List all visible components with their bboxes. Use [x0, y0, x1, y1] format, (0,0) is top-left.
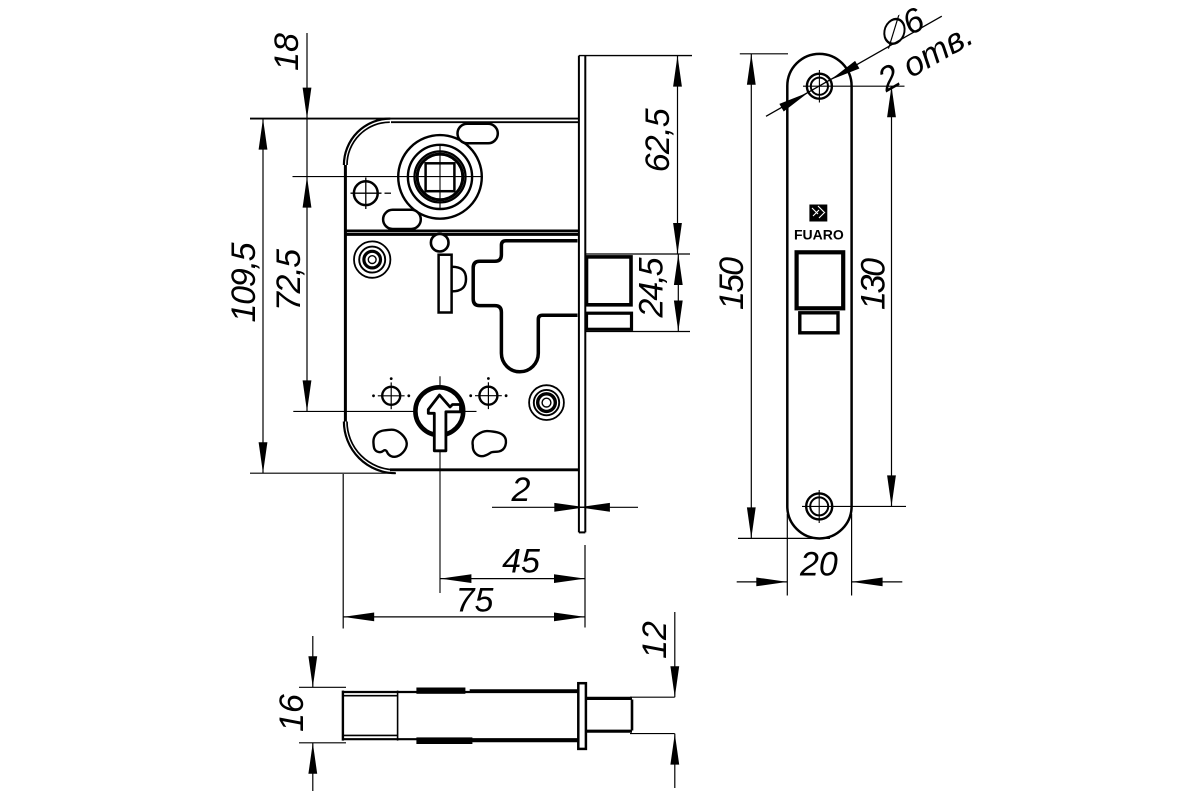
svg-text:20: 20 — [799, 546, 838, 584]
slot top-right stadium — [458, 124, 498, 144]
latch bolt extension bottom — [586, 331, 690, 333]
svg-text:24,5: 24,5 — [633, 257, 671, 318]
dim 45 — [440, 578, 585, 580]
wire body top inner fold line — [391, 121, 579, 123]
wire middle band — [346, 229, 579, 232]
slider bar — [452, 267, 466, 292]
node bottom-left corner arc — [344, 422, 396, 474]
svg-text:75: 75 — [456, 582, 494, 620]
dim 109,5 — [262, 119, 264, 474]
latch bolt head — [587, 257, 632, 305]
latch bolt extension top — [585, 253, 690, 255]
boss bottom — [416, 737, 472, 744]
lower rect — [800, 313, 838, 333]
latch hole — [797, 252, 844, 308]
boss top — [416, 688, 465, 694]
blob right — [473, 431, 506, 456]
screw top — [807, 74, 832, 99]
svg-text:45: 45 — [502, 543, 540, 581]
blob left — [373, 430, 406, 457]
case outline — [342, 691, 344, 741]
svg-text:62,5: 62,5 — [639, 108, 677, 172]
svg-text:150: 150 — [713, 257, 751, 310]
logo fuaro — [809, 205, 827, 222]
ext line right for 45/75 — [584, 545, 586, 628]
svg-text:12: 12 — [636, 621, 674, 659]
hub bottom — [415, 387, 463, 435]
svg-text:2: 2 — [511, 471, 531, 509]
slot mid-left stadium — [383, 210, 421, 229]
rivet bottom-right — [529, 385, 564, 420]
faceplate edge-on — [578, 56, 580, 533]
pin below band — [431, 234, 449, 252]
axis latch vertical + 45 extension — [439, 376, 441, 593]
dim 62,5 — [677, 56, 679, 254]
flange — [578, 683, 586, 749]
dim 18 + 72,5 shared line — [306, 33, 308, 411]
dim 150 — [740, 53, 788, 55]
bolt side — [630, 696, 675, 698]
follower arrow — [428, 395, 460, 451]
dim 20 — [786, 514, 788, 596]
T-cutout — [473, 241, 577, 372]
dim 24,5 — [677, 254, 679, 332]
dim 130 — [891, 86, 893, 506]
screw bottom-right — [479, 387, 497, 405]
node top-left corner arc — [344, 119, 390, 165]
inner fold lines — [397, 691, 399, 741]
latch aux bar — [587, 313, 632, 329]
wire faceplate top extension — [579, 55, 692, 57]
screw top-left — [354, 181, 378, 205]
spindle hub — [398, 135, 482, 219]
rivet top — [354, 241, 390, 277]
wire body left edge — [344, 165, 347, 422]
wire body top edge + extension — [250, 118, 579, 120]
ext line left for 75 — [342, 474, 344, 629]
dim 12 — [674, 612, 676, 697]
svg-text:109,5: 109,5 — [225, 242, 263, 322]
dim 16 — [299, 686, 346, 688]
screw bottom-left — [382, 387, 400, 405]
axis latch horizontal — [293, 410, 476, 412]
svg-text:18: 18 — [268, 33, 306, 71]
leader line phi6 — [766, 16, 942, 116]
screw bottom — [806, 493, 832, 519]
case top edge right part — [470, 689, 579, 692]
svg-text:72,5: 72,5 — [270, 249, 308, 311]
plate outline — [787, 54, 851, 539]
svg-text:16: 16 — [273, 694, 311, 732]
wire bottom extension line — [250, 472, 396, 474]
dim 75 — [343, 616, 585, 618]
dim 2 — [492, 506, 585, 508]
svg-text:FUARO: FUARO — [794, 227, 844, 243]
svg-text:130: 130 — [855, 258, 893, 310]
wire body bottom edge — [390, 468, 579, 471]
